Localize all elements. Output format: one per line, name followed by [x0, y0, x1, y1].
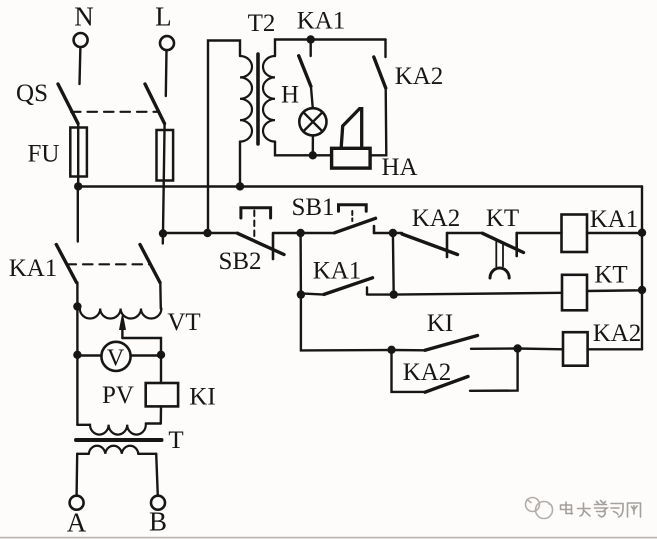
node row2 right junction	[390, 290, 398, 298]
contact KA2 NO blade (parallel)	[425, 377, 468, 393]
svg-text:A: A	[67, 508, 87, 538]
wire KT to coil KA1	[517, 232, 562, 234]
button SB1 cap	[339, 205, 367, 211]
lamp H cross stroke 1	[303, 112, 322, 131]
wire T secondary right	[138, 453, 156, 455]
wire left column down	[76, 307, 78, 425]
wire T primary left	[77, 424, 90, 426]
wire KA2 to KT	[447, 232, 483, 234]
wire lamp bottom	[312, 135, 315, 155]
button SB2 contact tick	[272, 233, 275, 259]
wire N stem	[78, 47, 81, 84]
horn HA flag	[341, 109, 362, 148]
contact KT NC blade	[483, 233, 524, 252]
contact KA1 NO blade (lamp)	[299, 56, 311, 86]
terminal A	[70, 496, 84, 510]
bottom edge rule	[0, 537, 657, 539]
node self-hold junction row1	[389, 229, 397, 237]
wire drop self-hold junctions	[392, 233, 395, 295]
transformer T primary winding	[90, 425, 146, 435]
svg-text:KT: KT	[486, 205, 519, 232]
wire KI coil down	[160, 406, 163, 423]
wire row2 to blade	[301, 293, 324, 294]
wire lamp branch drop	[310, 40, 312, 57]
svg-text:KA2: KA2	[395, 63, 444, 90]
svg-text:KA1: KA1	[590, 206, 639, 233]
wire row1 from L to SB2	[163, 232, 238, 234]
switch QS pole 2	[145, 84, 165, 124]
wire row2 to coil KT	[394, 293, 562, 295]
wire T2 primary left drop	[208, 41, 240, 234]
transformer T2 secondary winding	[263, 56, 275, 142]
wire self-hold right	[367, 293, 394, 295]
contact KI NO blade	[425, 336, 478, 351]
coil KT	[562, 275, 587, 311]
svg-text:KA2: KA2	[412, 205, 461, 232]
wire PV node to KI coil	[160, 355, 162, 383]
wire drop SB1-left to row2	[299, 233, 302, 295]
svg-text:KA2: KA2	[593, 320, 642, 347]
svg-text:T: T	[168, 427, 183, 454]
contact KA1 pole1 blade	[56, 245, 76, 283]
watermark text dianli xuexi wang	[561, 501, 641, 518]
svg-text:V: V	[107, 346, 125, 372]
wire row3 to KI blade	[392, 349, 426, 352]
wire N bus horizontal	[78, 185, 642, 187]
contact KA1 tick	[366, 288, 368, 295]
transformer T core	[76, 438, 162, 442]
wire SB1 to KA2 contact	[374, 232, 402, 234]
wire to terminal B	[156, 454, 158, 496]
node bus junction at FU1	[74, 182, 82, 190]
node lamp bottom junction	[309, 151, 317, 159]
wire coil KA2 to rail	[588, 348, 642, 350]
wire SB2 to SB1	[273, 232, 335, 234]
wire L stem	[165, 51, 168, 97]
node T2 left junction row1	[203, 229, 211, 237]
autotransformer VT winding	[80, 309, 162, 319]
wire pole2 to VT	[159, 283, 162, 309]
wire pole1 to VT	[76, 283, 78, 308]
wire KA2 parallel branch left	[392, 350, 426, 392]
button SB2 cap	[241, 208, 271, 218]
contact KA2 NC blade (row1)	[402, 234, 458, 255]
contact KA2 tick	[446, 233, 449, 257]
svg-text:KA1: KA1	[9, 255, 58, 282]
svg-text:SB2: SB2	[218, 248, 261, 275]
wire row3 to coil KA2	[518, 347, 563, 350]
button SB1 plunger	[351, 211, 353, 221]
horn HA base	[332, 148, 371, 168]
svg-text:H: H	[281, 82, 299, 109]
svg-text:KA2: KA2	[403, 359, 452, 386]
wire T secondary left	[77, 453, 89, 455]
wire through fuse 2	[163, 124, 165, 234]
VT wiper arm	[121, 326, 123, 338]
button SB1 NO blade	[335, 218, 376, 233]
button SB2 NC blade	[238, 233, 285, 254]
node row2 left junction	[297, 290, 305, 298]
lamp H cross stroke 2	[303, 112, 322, 131]
contact KT tick	[515, 233, 518, 256]
wire to terminal A	[75, 454, 78, 496]
svg-text:N: N	[74, 2, 94, 32]
wire drop row2 to row3	[301, 295, 392, 351]
node row3 left junction	[387, 346, 395, 354]
lamp H	[299, 108, 326, 135]
svg-text:KA1: KA1	[297, 8, 346, 35]
node row3 right junction	[513, 344, 521, 352]
terminal N	[74, 33, 88, 47]
svg-text:KT: KT	[594, 262, 627, 289]
node row1 L junction	[159, 229, 167, 237]
terminal B	[151, 496, 165, 510]
watermark logo	[526, 498, 553, 519]
svg-text:KI: KI	[189, 384, 215, 411]
wire PV right	[131, 354, 161, 356]
node VT left junction	[73, 302, 81, 310]
node rail junction row2	[638, 286, 646, 294]
wire KI right	[471, 347, 518, 350]
wire through fuse 1	[77, 124, 79, 187]
node SB1 left junction	[296, 229, 304, 237]
svg-text:B: B	[149, 507, 167, 537]
fuse FU-1	[70, 128, 87, 177]
svg-text:FU: FU	[28, 141, 60, 168]
wire T2 secondary top	[275, 40, 386, 57]
wire PV left	[77, 354, 101, 356]
timer KT delay linkage line 2	[502, 244, 504, 267]
voltmeter PV	[101, 342, 130, 371]
contact KA2 NO blade (horn)	[374, 57, 386, 88]
node rail junction row1	[638, 229, 646, 237]
node PV left junction	[73, 351, 81, 359]
wire blade to lamp	[311, 86, 313, 108]
node lamp branch junction	[307, 35, 315, 43]
wire T2 primary bottom drop	[239, 142, 241, 187]
svg-text:PV: PV	[102, 382, 134, 409]
timer KT delay dome	[490, 268, 509, 278]
svg-text:T2: T2	[248, 10, 276, 37]
wire T2 secondary bottom	[275, 142, 332, 156]
svg-text:SB1: SB1	[291, 194, 334, 221]
wire right rail vertical	[641, 187, 643, 350]
wire KA2 parallel branch right	[470, 349, 518, 391]
svg-text:L: L	[155, 2, 172, 32]
wire T primary right	[146, 422, 161, 424]
node T2 primary bus junction	[236, 182, 244, 190]
svg-text:QS: QS	[16, 80, 48, 107]
terminal L	[160, 36, 174, 50]
contact KA1 NO blade (self-hold)	[324, 278, 373, 295]
timer KT delay linkage line 1	[495, 242, 497, 267]
wire N branch below bus	[77, 187, 79, 242]
button SB2 plunger	[253, 211, 255, 242]
wire coil KT to rail	[587, 289, 642, 292]
node PV right junction	[157, 351, 165, 359]
button SB1 contact tick	[373, 226, 376, 233]
VT wiper arrowhead	[119, 312, 126, 331]
coil KA2	[563, 332, 588, 366]
contact KA1 pole2 blade	[140, 245, 160, 283]
svg-text:HA: HA	[381, 154, 417, 181]
wire L branch below row1	[162, 233, 165, 244]
contact KA1 linkage	[67, 263, 151, 265]
coil KI	[146, 383, 178, 406]
wire horn branch drop	[384, 40, 386, 58]
transformer T2 core	[256, 54, 260, 144]
wire horn branch down	[370, 88, 386, 155]
switch QS linkage	[71, 111, 158, 113]
svg-text:VT: VT	[167, 309, 200, 336]
fuse FU-2	[157, 130, 174, 181]
transformer T secondary winding	[89, 446, 139, 454]
svg-text:KA1: KA1	[313, 258, 362, 285]
transformer T2 primary winding	[240, 56, 252, 142]
wire wiper to PV node	[122, 338, 161, 355]
coil KA1	[562, 215, 588, 253]
wire coil KA1 to rail	[587, 232, 642, 234]
switch QS pole 1	[58, 84, 78, 124]
svg-text:KI: KI	[427, 310, 453, 337]
